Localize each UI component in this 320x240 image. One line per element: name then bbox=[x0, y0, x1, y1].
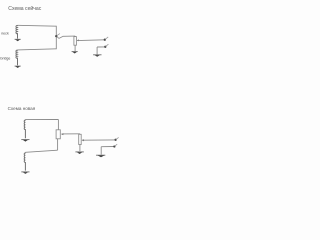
svg-text:neck: neck bbox=[1, 32, 9, 36]
wire R2 wiper to R3 bbox=[62, 133, 80, 136]
ground (jack2) bbox=[96, 155, 105, 157]
potentiometer R3 (volume) body bbox=[79, 134, 82, 144]
jack2 sleeve wire bbox=[101, 146, 114, 148]
wire neck top bbox=[18, 24, 57, 27]
potentiometer R1 (volume) body bbox=[74, 37, 77, 46]
wire sleeve leg bbox=[96, 47, 98, 54]
ground (pot R3) bbox=[75, 152, 83, 154]
jack tip terminal hook bbox=[104, 37, 109, 41]
wiper arrow R1 bbox=[77, 40, 79, 42]
wire wiper to jack tip bbox=[77, 39, 104, 42]
ground (coil L3) bbox=[21, 140, 29, 142]
wire down to R2 bbox=[57, 120, 59, 130]
jack sleeve wire bbox=[97, 46, 105, 48]
pickup coil L1 (neck) bbox=[16, 25, 18, 38]
svg-text:Схема новая: Схема новая bbox=[8, 106, 36, 111]
wire L3 top bbox=[25, 118, 58, 120]
ground (jack) bbox=[93, 55, 101, 57]
wire R3 bottom bbox=[79, 145, 81, 152]
jack2 sleeve terminal hook bbox=[113, 144, 117, 147]
ground (neck) bbox=[15, 39, 21, 41]
jack2 tip terminal hook bbox=[114, 137, 118, 141]
node junction dot bbox=[55, 35, 57, 37]
wiper arrow R3 bbox=[82, 139, 84, 141]
wire sleeve2 leg bbox=[100, 147, 102, 155]
wiper arrow R2 bbox=[61, 133, 63, 135]
wire R2 bottom leg bbox=[57, 139, 59, 150]
svg-text:Схема сейчас: Схема сейчас bbox=[8, 5, 41, 12]
wire selector tap with arrowhead bbox=[57, 34, 75, 39]
potentiometer R2 (blend) body bbox=[56, 130, 60, 139]
ground (pot R1) bbox=[72, 52, 78, 54]
pickup coil L3 (upper) bbox=[24, 120, 25, 139]
jack sleeve terminal hook bbox=[104, 44, 108, 48]
ground (coil L4) bbox=[21, 172, 29, 174]
wire R1 bottom bbox=[74, 45, 76, 51]
wire right bus vertical bbox=[55, 26, 57, 49]
pickup coil L2 (bridge) bbox=[16, 50, 18, 65]
wire bridge top bbox=[18, 49, 57, 50]
wire L4 top (lower) bbox=[25, 150, 57, 152]
svg-text:bridge: bridge bbox=[0, 57, 10, 61]
wire wiper R3 to jack tip bbox=[82, 139, 115, 141]
ground (bridge) bbox=[15, 66, 21, 68]
pickup coil L4 (lower) bbox=[24, 153, 25, 171]
